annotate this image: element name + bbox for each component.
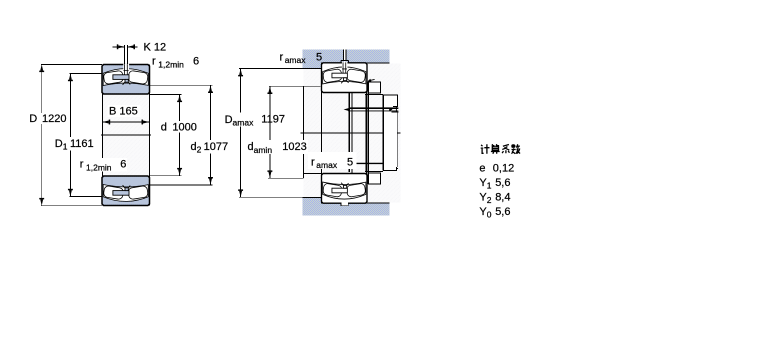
svg-text:e: e [479, 162, 485, 174]
svg-text:K 12: K 12 [144, 41, 167, 53]
label ramax 5 (bottom) [308, 152, 357, 170]
dimension D1 1161 [54, 73, 103, 196]
svg-text:r: r [80, 158, 84, 170]
dimension Damax 1197 [223, 69, 302, 198]
e 0,12 [479, 162, 514, 174]
svg-text:1000: 1000 [172, 122, 196, 134]
Y1 5,6 [479, 177, 510, 190]
svg-text:r: r [280, 52, 284, 64]
dimension B 165 [103, 105, 150, 125]
slit leader arrow [367, 79, 374, 82]
step ring (sleeve flange) bottom [368, 173, 380, 184]
shaft end face [302, 86, 304, 178]
label ramax 5 (top) [280, 52, 323, 66]
dimension d 1000 [150, 94, 199, 175]
svg-text:5: 5 [347, 157, 353, 169]
label r1,2min 6 (top) [152, 55, 199, 69]
svg-text:6: 6 [193, 55, 199, 67]
axis centerline [300, 132, 400, 134]
housing block top [303, 50, 390, 69]
shaft bore extension line [303, 172, 321, 174]
dimension damin 1023 [246, 86, 320, 178]
数 [511, 144, 520, 153]
withdrawal sleeve slit lines [349, 93, 352, 174]
housing block bottom [303, 197, 390, 215]
K lubrication hole lines [125, 45, 128, 64]
axis centerline [101, 134, 151, 136]
dimension K 12 [112, 41, 166, 53]
svg-text:1197: 1197 [261, 113, 285, 125]
label r1,2min 6 (bottom) [79, 158, 128, 173]
middle top bearing section (outline only) [322, 62, 368, 93]
top bearing section (outer ring, rollers, inner ring) [102, 64, 150, 94]
sleeve lock nut [383, 95, 398, 170]
svg-text:0,12: 0,12 [493, 162, 514, 174]
svg-text:r: r [152, 55, 156, 67]
svg-text:1023: 1023 [282, 141, 306, 153]
dimension D 1220 [28, 64, 102, 205]
lubrication notch bottom (through housing) [341, 203, 348, 206]
svg-text:B 165: B 165 [109, 106, 138, 118]
svg-text:1,2min: 1,2min [158, 60, 184, 70]
shaft area hatch strip [303, 63, 400, 202]
svg-text:8,4: 8,4 [495, 192, 510, 204]
svg-text:d: d [161, 122, 167, 134]
svg-text:amax: amax [316, 160, 338, 170]
svg-text:amax: amax [285, 55, 307, 65]
heading 计算系数 (drawn strokes) [481, 144, 520, 154]
lubrication duct through housing [341, 49, 348, 63]
bearing faces (middle) [322, 63, 383, 203]
系 [502, 145, 509, 154]
svg-text:1161: 1161 [70, 138, 94, 150]
svg-text:1220: 1220 [42, 113, 66, 125]
sleeve thread / oil duct with arrow [344, 107, 399, 163]
middle bottom bearing section (outline only, mirrored) [322, 173, 368, 203]
svg-text:1,2min: 1,2min [86, 163, 112, 173]
svg-text:D: D [29, 113, 37, 125]
svg-text:6: 6 [120, 158, 126, 170]
svg-text:5,6: 5,6 [495, 206, 510, 218]
bore hatch strip [102, 94, 150, 176]
bearing side face lines [102, 65, 149, 206]
dimension d2 1077 [150, 85, 234, 185]
svg-text:1077: 1077 [204, 141, 228, 153]
Y0 5,6 [479, 206, 510, 219]
svg-text:5,6: 5,6 [495, 177, 510, 189]
bottom bearing section (mirrored) [102, 176, 150, 206]
svg-text:5: 5 [316, 52, 322, 64]
step ring (sleeve flange) top [368, 82, 380, 184]
svg-text:r: r [311, 157, 315, 169]
Y2 8,4 [479, 192, 510, 205]
计 [481, 144, 490, 153]
算 [491, 144, 500, 154]
